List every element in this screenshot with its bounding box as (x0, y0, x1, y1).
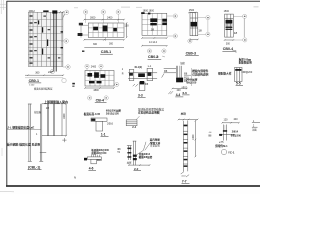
detail CB-4 right axis circle (114, 82, 119, 86)
svg-text:300: 300 (226, 42, 231, 45)
section detail 4-4 upper (156, 55, 198, 97)
detail C2B-1 bottom dim (84, 39, 125, 47)
detail C2B-1 top axis circles (83, 10, 120, 23)
svg-text:板面标高-0.05: 板面标高-0.05 (84, 112, 101, 116)
section 4-4 upper bottom dim (172, 88, 188, 90)
detail 2-2 member with leader (128, 138, 161, 171)
svg-text:2Φ12: 2Φ12 (29, 10, 36, 13)
joint detail beams (128, 68, 157, 90)
column elevation bottom marks (181, 172, 189, 177)
svg-text:4800: 4800 (93, 89, 99, 92)
svg-text:KL1(2): KL1(2) (135, 66, 143, 69)
column elevation inner marks (184, 125, 188, 167)
detail CB0-2 bottom axis circles (147, 49, 166, 53)
joint detail cross plan (128, 65, 157, 98)
YC-1 top dim line (222, 122, 240, 124)
svg-text:3000: 3000 (90, 16, 96, 19)
svg-text:CB0-4: CB0-4 (223, 47, 233, 51)
detail CB-4 column blobs (88, 72, 106, 83)
plan CB0-1 top dark blob (52, 10, 57, 13)
detail CB0-3 right axis circles (198, 16, 210, 37)
svg-text:箍筋Φ8加密: 箍筋Φ8加密 (139, 155, 153, 159)
svg-text:预埋件M-1: 预埋件M-1 (215, 144, 228, 148)
svg-text:C2B-1: C2B-1 (101, 50, 111, 54)
joint detail ticks (133, 84, 139, 87)
detail CB0-2 body (142, 13, 167, 35)
svg-text:(CBL-1): (CBL-1) (28, 165, 40, 169)
svg-text:详见结构说明: 详见结构说明 (192, 73, 208, 77)
svg-text:18: 18 (151, 27, 155, 31)
detail C2B-1 right dim (126, 22, 128, 38)
detail C2B-1 body (88, 23, 124, 37)
column elevation top dim (178, 119, 199, 121)
svg-text:360: 360 (35, 71, 40, 74)
YC-1 member cap blob (223, 130, 227, 132)
YC-1 section symbol far right (252, 120, 260, 131)
svg-text:1800 1800: 1800 1800 (143, 10, 155, 13)
embed plate detail YC-1 (208, 118, 260, 155)
svg-text:200: 200 (177, 89, 182, 92)
detail CB-4 top axis circles (85, 64, 103, 70)
svg-text:2-4: 2-4 (132, 125, 136, 129)
tall detail bottom tick (40, 152, 46, 154)
detail CB-4 body (85, 71, 114, 87)
sheet frame top line (7, 0, 261, 2)
svg-text:配筋图说明: 配筋图说明 (239, 60, 252, 64)
plan CB0-1 bottom axis circle (50, 69, 54, 73)
detail CB0-4 bottom dim (224, 39, 234, 41)
svg-text:套管大样: 套管大样 (149, 141, 161, 145)
detail CB0-3 body (190, 13, 198, 36)
detail C2B-1 column blobs (93, 26, 117, 32)
section 1-1 T shape (91, 118, 107, 131)
mid note text blocks (182, 68, 232, 95)
detail CB0-2 bottom dims (141, 37, 167, 46)
svg-text:2400: 2400 (107, 16, 113, 19)
svg-text:梁配筋大样: 梁配筋大样 (218, 71, 232, 75)
sheet frame left line (6, 1, 8, 187)
detail CB-4 (72, 64, 124, 102)
column elevation (178, 112, 199, 184)
svg-text:底筋Φ8@150: 底筋Φ8@150 (90, 151, 107, 155)
svg-text:7-7: 7-7 (182, 180, 187, 184)
divider vline (191, 68, 193, 86)
svg-text:板内钢筋 锚固长度 见说明: 板内钢筋 锚固长度 见说明 (7, 141, 41, 146)
tall detail box (42, 104, 62, 136)
section 4-4 upper body (164, 66, 182, 78)
svg-text:300: 300 (93, 43, 98, 46)
svg-text:2Φ16: 2Φ16 (107, 122, 114, 125)
detail CB0-4 column blob (226, 20, 233, 24)
svg-text:2Φ12@150: 2Φ12@150 (106, 113, 119, 116)
svg-text:2400: 2400 (91, 65, 97, 68)
column elevation right dim (195, 120, 197, 157)
axis circle inner marks (52, 11, 246, 98)
plan CB0-1 interior vertical texts (34, 16, 63, 59)
YC-1 circle symbol (221, 149, 226, 154)
svg-text:1800: 1800 (63, 113, 66, 119)
right note text block (239, 57, 252, 64)
detail CB0-4 (222, 10, 247, 53)
svg-text:Φ10: Φ10 (97, 159, 102, 162)
svg-text:柱顶: 柱顶 (181, 112, 187, 116)
column elevation body (183, 121, 188, 172)
detail CB-4 bottom dim (84, 87, 115, 89)
svg-text:5-5: 5-5 (236, 82, 241, 86)
svg-text:J-L 钢筋锚固长度LaE: J-L 钢筋锚固长度LaE (7, 126, 34, 130)
detail CB0-3 column blob (191, 22, 197, 27)
svg-text:详见结构总说明图: 详见结构总说明图 (138, 111, 160, 115)
YC-1 cross line (219, 133, 235, 135)
section 4-4 lower group (84, 146, 132, 171)
section 1-1 group (84, 109, 122, 137)
note text bottom-right top (138, 107, 164, 114)
svg-text:N: N (74, 176, 76, 180)
svg-text:1500: 1500 (189, 9, 195, 12)
svg-text:14 14.4: 14 14.4 (149, 41, 158, 44)
corner artifact lines (0, 0, 7, 156)
2-2 funnel leader (136, 142, 151, 155)
detail CB0-3 (185, 9, 210, 55)
section 4-4 lower rebar ticks (92, 155, 100, 157)
detail CB0-4 right axis circles (233, 14, 247, 42)
svg-text:240: 240 (234, 118, 239, 121)
2-2 vertical member (133, 141, 137, 166)
detail CB0-3 bottom axis circle (188, 39, 192, 43)
plan CB0-1 bottom dimension line (25, 74, 64, 76)
section 4-4 lower T shape (87, 157, 101, 164)
detail CB0-4 cell text rows (226, 27, 233, 28)
svg-text:4-6: 4-6 (89, 166, 94, 170)
svg-text:1000: 1000 (192, 134, 195, 140)
svg-text:注:: 注: (156, 55, 159, 59)
svg-text:上部钢筋锚入梁内: 上部钢筋锚入梁内 (44, 99, 68, 104)
2-2 member blobs (133, 155, 137, 157)
svg-text:120: 120 (224, 118, 229, 121)
svg-text:∠75: ∠75 (219, 141, 224, 144)
joint detail blobs (138, 73, 145, 77)
small elevation right of 4-4 (127, 146, 132, 161)
frame corner mark (0, 190, 14, 193)
note block C stacked labels (184, 72, 191, 83)
tall detail plus mark (62, 138, 66, 142)
svg-text:CB-4: CB-4 (96, 98, 104, 102)
svg-text:Φ8@200: Φ8@200 (243, 71, 253, 74)
svg-text:≥[m]: ≥[m] (182, 85, 187, 89)
faint top smudges (74, 6, 259, 8)
detail CB0-4 corner mark (233, 51, 237, 54)
small box detail right of 1-1 (126, 116, 139, 129)
svg-text:2-2: 2-2 (134, 167, 139, 171)
sheet frame bottom line (6, 185, 260, 187)
YC-1 left blob (219, 134, 222, 136)
svg-text:6-6: 6-6 (183, 91, 188, 95)
plan CB0-1 left dimension texts (29, 15, 32, 63)
svg-text:CB0-3: CB0-3 (186, 51, 196, 55)
plan CB0-1 outer rect (28, 12, 63, 66)
svg-text:Φ8@200: Φ8@200 (231, 134, 242, 137)
svg-text:YC-1: YC-1 (228, 150, 235, 154)
detail CB0-3 bottom dim (189, 39, 198, 41)
detail CB0-2 column blobs (141, 12, 167, 25)
svg-text:2Φ14: 2Φ14 (232, 130, 239, 133)
svg-text:3-3: 3-3 (138, 93, 143, 97)
svg-text:150: 150 (125, 25, 130, 28)
tall detail right dim (62, 103, 67, 137)
svg-text:拉结筋: 拉结筋 (34, 110, 42, 114)
svg-text:1:100: 1:100 (29, 84, 35, 86)
svg-text:R: R (122, 73, 124, 76)
svg-text:18: 18 (198, 28, 202, 32)
svg-text:1-1: 1-1 (101, 133, 106, 137)
detail CB0-2 right axis circles (167, 14, 178, 38)
svg-text:18: 18 (234, 31, 238, 35)
plan CB0-1 label (25, 77, 63, 79)
plan CB0-1 grid vlines (29, 12, 31, 66)
detail C2B-1 (78, 10, 130, 54)
tall detail CBL-1 (7, 86, 68, 169)
detail C2B-1 left axis circles (81, 23, 88, 38)
svg-text:楼板内预埋件: 楼板内预埋件 (192, 69, 208, 73)
left edge mark (72, 83, 75, 85)
plan CB0-1 grid hlines (28, 19, 63, 61)
svg-text:300: 300 (109, 43, 114, 46)
detail CB0-4 right line (243, 18, 245, 37)
detail CB0-4 body (225, 14, 234, 37)
plan CB0-1 (25, 10, 70, 87)
svg-text:Φ10: Φ10 (184, 77, 189, 80)
detail CB0-2 (141, 10, 177, 60)
svg-text:1500: 1500 (224, 10, 230, 13)
YC-1 vertical member (223, 125, 226, 141)
plan CB0-1 right axis circles (61, 10, 70, 69)
section 5-5 small detail (235, 68, 253, 86)
2-2 bottom dim (128, 164, 150, 166)
plan CB0-1 top ticks (59, 11, 63, 13)
tall detail long left double line (28, 104, 43, 162)
detail C2B-1 top dim line (84, 19, 125, 21)
detail CB-4 bottom axis circles (88, 96, 109, 100)
svg-text:4-4: 4-4 (176, 93, 181, 97)
svg-text:CB0-1: CB0-1 (29, 79, 39, 83)
plan CB0-1 dark column strip (54, 12, 56, 71)
